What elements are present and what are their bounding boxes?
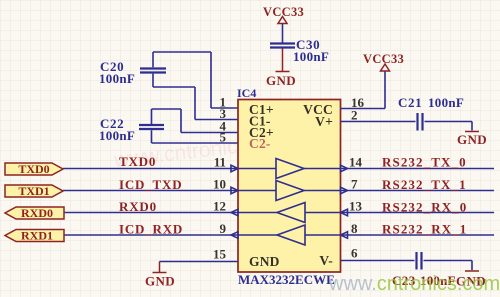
svg-text:www.cntronics.com: www.cntronics.com bbox=[328, 273, 500, 295]
svg-text:VCC33: VCC33 bbox=[263, 5, 304, 19]
svg-text:12: 12 bbox=[213, 199, 226, 214]
svg-text:GND: GND bbox=[457, 132, 487, 147]
svg-text:TXD1: TXD1 bbox=[18, 184, 49, 198]
svg-text:5: 5 bbox=[220, 130, 227, 145]
svg-text:13: 13 bbox=[349, 199, 363, 214]
svg-text:RS232_TX_0: RS232_TX_0 bbox=[382, 155, 467, 170]
svg-text:100nF: 100nF bbox=[99, 128, 135, 143]
svg-text:GND: GND bbox=[145, 274, 175, 289]
svg-text:MAX3232ECWE: MAX3232ECWE bbox=[238, 272, 335, 287]
svg-text:TXD0: TXD0 bbox=[119, 154, 156, 169]
svg-text:GND: GND bbox=[249, 254, 280, 269]
svg-text:V+: V+ bbox=[315, 114, 333, 129]
svg-text:9: 9 bbox=[220, 221, 227, 236]
svg-text:100nF: 100nF bbox=[99, 71, 135, 86]
svg-text:10: 10 bbox=[213, 177, 226, 192]
svg-text:GND: GND bbox=[266, 73, 296, 88]
svg-text:100nF: 100nF bbox=[293, 49, 329, 64]
svg-text:RS232_RX_0: RS232_RX_0 bbox=[382, 200, 467, 215]
svg-text:6: 6 bbox=[351, 246, 358, 261]
svg-text:RXD0: RXD0 bbox=[21, 206, 53, 220]
svg-text:RXD0: RXD0 bbox=[119, 199, 157, 214]
svg-text:C2-: C2- bbox=[249, 136, 271, 151]
svg-text:14: 14 bbox=[349, 155, 363, 170]
svg-text:15: 15 bbox=[213, 247, 227, 262]
svg-text:7: 7 bbox=[351, 177, 358, 192]
svg-text:100nF: 100nF bbox=[428, 95, 464, 110]
svg-text:ICD_RXD: ICD_RXD bbox=[119, 222, 183, 237]
svg-text:V-: V- bbox=[319, 253, 333, 268]
svg-text:RS232_RX_1: RS232_RX_1 bbox=[382, 222, 467, 237]
svg-text:IC4: IC4 bbox=[237, 86, 256, 100]
svg-text:11: 11 bbox=[214, 155, 226, 170]
svg-text:RS232_TX_1: RS232_TX_1 bbox=[382, 177, 467, 192]
svg-text:8: 8 bbox=[351, 221, 358, 236]
svg-text:RXD1: RXD1 bbox=[21, 229, 53, 243]
svg-text:VCC33: VCC33 bbox=[363, 52, 404, 66]
svg-text:TXD0: TXD0 bbox=[18, 162, 49, 176]
svg-text:C21: C21 bbox=[398, 95, 422, 110]
svg-text:ICD_TXD: ICD_TXD bbox=[119, 177, 182, 192]
svg-text:2: 2 bbox=[351, 108, 358, 123]
